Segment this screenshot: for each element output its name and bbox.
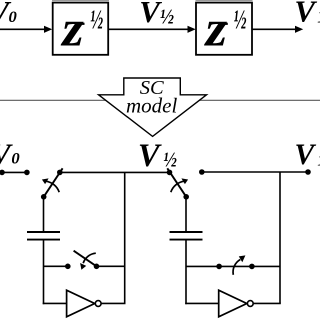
switch S1 bottom contact dot [41, 194, 47, 200]
wire top rail stage 2 (V1 net) [202, 171, 308, 173]
switch S2 left contact dot [65, 264, 71, 270]
wire arrow out of block 2 [253, 26, 304, 33]
svg-text:½: ½ [90, 4, 103, 35]
svg-text:V: V [294, 0, 317, 28]
node V1/2 (top label) [139, 0, 174, 29]
separator line [0, 99, 320, 101]
svg-text:½: ½ [234, 4, 247, 35]
svg-text:model: model [126, 93, 177, 117]
inverter A1 [67, 290, 102, 317]
wire mid branch stage 2 (closed switch S4) [186, 265, 280, 267]
wire V0 stub [0, 171, 27, 173]
node dot stage2 rail left [199, 169, 205, 175]
SC model fat arrow [99, 77, 207, 136]
svg-text:½: ½ [163, 147, 177, 171]
node V0 (top label) [0, 0, 17, 29]
switch S1 lever (closed to top rail) [44, 168, 63, 197]
node V1/2 (bottom label) [138, 138, 177, 174]
node dot V1 [305, 169, 311, 175]
wire switch S1 to capacitor C1 [43, 197, 45, 232]
switch S2 lever (open) [74, 251, 97, 267]
node V1 (bottom label) [295, 139, 320, 171]
wire capacitor C2 down to bottom rail [185, 240, 187, 305]
wire switch S3 to capacitor C2 [185, 197, 187, 232]
svg-text:z: z [60, 0, 84, 57]
svg-text:z: z [203, 0, 227, 57]
svg-text:0: 0 [11, 151, 20, 168]
svg-text:V: V [139, 0, 162, 29]
switch S2 motion arrow [80, 253, 96, 270]
switch S3 motion arrow [171, 178, 188, 192]
wire arrow block1 to block2 [108, 26, 196, 33]
switch S4 motion arrow [233, 255, 245, 274]
node dot V0 right [24, 170, 30, 176]
inverter A2 [219, 290, 254, 317]
svg-text:½: ½ [160, 5, 174, 29]
switch S2 right contact dot [94, 264, 100, 270]
delay block z^-1/2 (1) [53, 0, 108, 57]
svg-text:V: V [138, 138, 162, 174]
wire S2 right to right rail [97, 265, 125, 267]
gray crop mark above block 1 [52, 0, 109, 1]
delay block z^-1/2 (2) [196, 0, 252, 57]
wire top rail stage 1 (V1/2 net) [60, 171, 170, 173]
svg-text:0: 0 [9, 9, 17, 26]
wire bottom rail to inverter A1 input [43, 302, 67, 304]
capacitor C1 [27, 232, 60, 240]
node V1 (top label) [294, 0, 320, 28]
wire bottom rail to inverter A2 input [185, 302, 219, 304]
switch S3 bottom contact dot [183, 194, 189, 200]
switch S4 right contact dot [249, 264, 255, 270]
wire right rail stage 1 [124, 172, 126, 303]
wire inverter A2 output to right rail [253, 302, 281, 304]
wire right rail stage 2 [279, 172, 281, 303]
wire mid branch left (C1 bottom to S2) [44, 265, 68, 267]
svg-text:V: V [295, 139, 317, 171]
switch S1 top contact dot [57, 170, 63, 176]
capacitor C2 [170, 232, 203, 240]
wire arrow into block 1 [0, 26, 52, 33]
gray crop mark above block 2 [196, 0, 253, 1]
wire inverter A1 output to right rail [101, 302, 125, 304]
wire capacitor C1 down to bottom rail [43, 240, 45, 305]
node dot V1/2 [167, 170, 173, 176]
node dot V0 left [0, 170, 5, 176]
switch S3 lever (closed to V1/2) [167, 168, 186, 197]
switch S4 left contact dot [216, 264, 222, 270]
switch S1 motion arrow [42, 178, 59, 192]
node V0 (bottom label) [0, 137, 20, 172]
